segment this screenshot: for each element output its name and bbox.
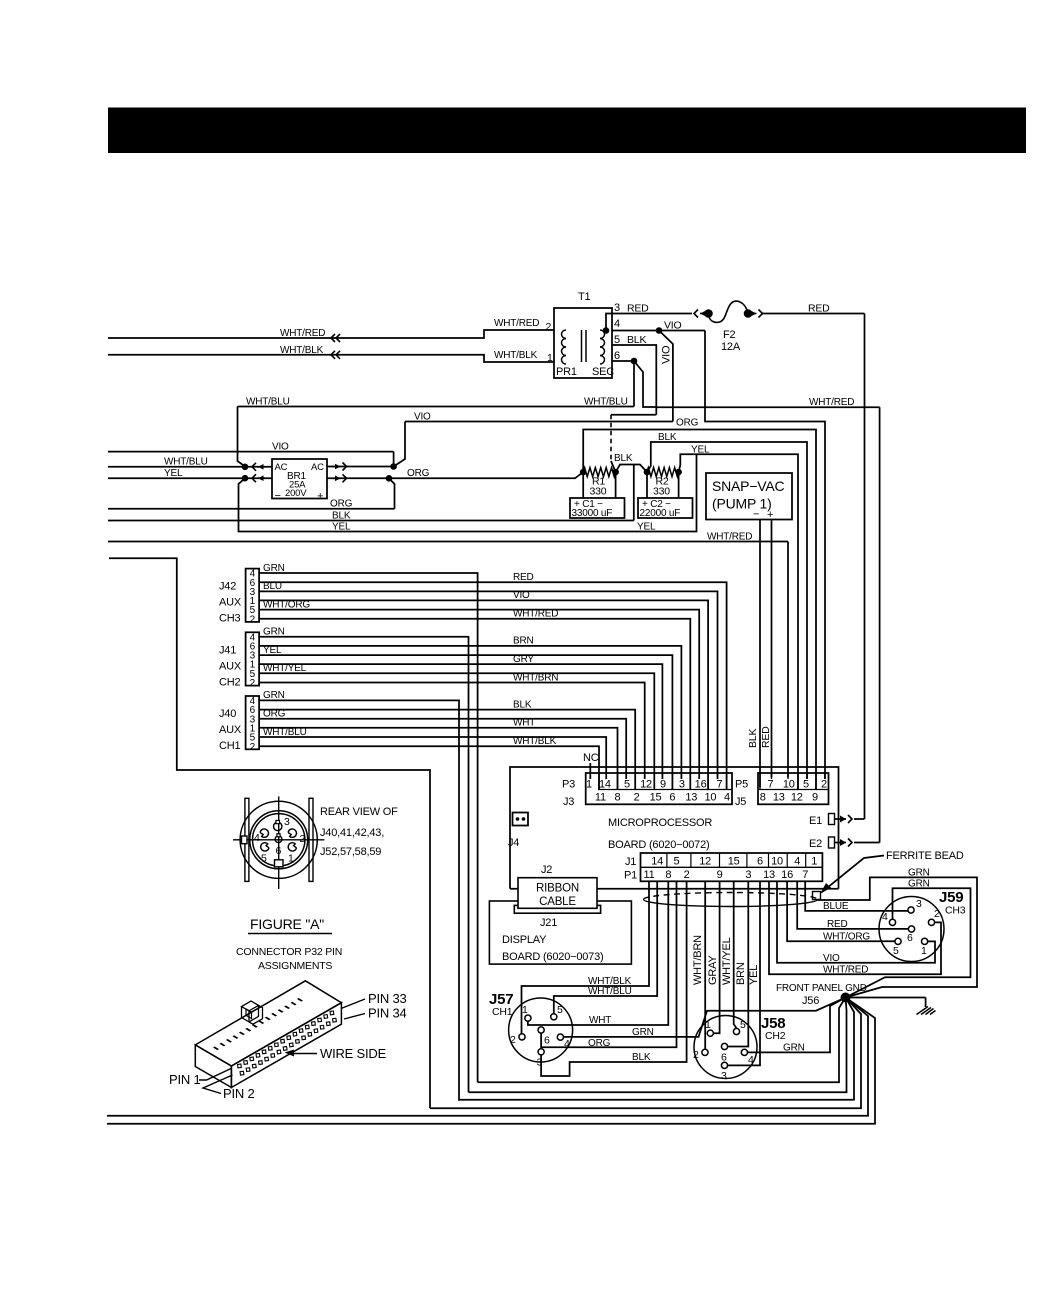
svg-text:−: −	[753, 509, 759, 521]
wire BRN P1-3 to J58 pin6	[728, 881, 749, 1046]
svg-text:2: 2	[250, 678, 256, 689]
wire GRN J59 pin4 to GND	[846, 879, 971, 998]
svg-text:WHT/BLK: WHT/BLK	[513, 736, 557, 747]
wire ORG J1-5 to J57 pin6	[541, 881, 676, 1049]
svg-text:FIGURE "A": FIGURE "A"	[250, 916, 324, 932]
wire WHT J40 to J3 pin 8	[259, 718, 617, 790]
terminal E2	[809, 837, 880, 850]
wire ferrite tail GRN to GND	[818, 867, 978, 997]
svg-text:+: +	[317, 491, 323, 503]
svg-text:7: 7	[716, 779, 722, 791]
svg-text:1: 1	[547, 352, 553, 364]
figure A DIN connector rear view	[233, 796, 324, 889]
svg-text:15: 15	[650, 792, 662, 804]
connector J40 AUX CH1	[219, 696, 259, 753]
svg-text:J4: J4	[508, 837, 519, 849]
wire WHT/BLK to T1 pin 1	[108, 345, 554, 364]
svg-text:BLK: BLK	[332, 510, 351, 521]
svg-text:MICROPROCESSOR: MICROPROCESSOR	[608, 817, 712, 829]
svg-text:RED: RED	[513, 572, 534, 583]
svg-text:2: 2	[693, 1049, 699, 1061]
svg-text:WHT/RED: WHT/RED	[280, 328, 325, 339]
pump SNAP-VAC (PUMP 1)	[706, 473, 792, 521]
svg-text:PIN 2: PIN 2	[223, 1086, 255, 1101]
svg-text:DISPLAY: DISPLAY	[502, 934, 547, 946]
svg-text:J59: J59	[939, 889, 963, 906]
wire WHT/RED (right, to E2)	[657, 397, 880, 843]
node jog R1-R2 BLK	[614, 453, 647, 472]
svg-text:9: 9	[812, 792, 818, 804]
wire SNAP-VAC + to P5 pin 7 (RED)	[760, 520, 772, 778]
wire GND to bracket	[430, 998, 861, 1109]
svg-text:GRN: GRN	[908, 867, 930, 878]
connector J41 AUX CH2	[219, 632, 259, 689]
svg-text:3: 3	[721, 1070, 727, 1082]
svg-text:J21: J21	[540, 917, 557, 929]
svg-text:VIO: VIO	[661, 345, 673, 364]
wire WHT P1-8 to J57 pin1	[528, 881, 668, 1026]
svg-text:WHT/BLU: WHT/BLU	[246, 396, 290, 407]
svg-text:GRY: GRY	[513, 654, 534, 665]
wire VIO J1-10 to J59 pin1	[777, 881, 935, 964]
svg-text:13: 13	[773, 792, 785, 804]
svg-text:13: 13	[763, 869, 775, 881]
fuse F2 12A	[694, 301, 763, 353]
BR1 + output node ORG	[327, 468, 583, 482]
svg-text:BOARD (6020−0073): BOARD (6020−0073)	[502, 951, 603, 963]
wire GRN J40 pin4	[259, 690, 459, 1101]
svg-text:BRN: BRN	[735, 962, 747, 985]
svg-text:FRONT PANEL GND: FRONT PANEL GND	[776, 983, 867, 994]
svg-text:GRN: GRN	[908, 879, 930, 890]
svg-text:12: 12	[791, 792, 803, 804]
svg-text:5: 5	[893, 945, 899, 957]
wire RED J1-4 to J59 pin6	[797, 881, 908, 930]
svg-text:1: 1	[288, 853, 294, 865]
svg-text:6: 6	[669, 792, 675, 804]
capacitor C1 33000 uF	[570, 472, 625, 519]
svg-text:1: 1	[586, 779, 592, 791]
wire GND to J40 GRN	[459, 998, 854, 1100]
svg-text:14: 14	[651, 856, 663, 868]
svg-text:12: 12	[640, 779, 652, 791]
svg-text:GRAY: GRAY	[707, 955, 719, 985]
svg-text:E1: E1	[809, 815, 822, 827]
wire BLUE P1-7 to J59 pin3	[805, 881, 908, 912]
BR1 left wire (YEL)	[108, 468, 272, 482]
P32 labels	[169, 991, 407, 1101]
svg-text:AC: AC	[275, 462, 288, 473]
wire YEL J1-6 to J58 pin3	[728, 881, 760, 1065]
svg-text:WHT/ORG: WHT/ORG	[263, 599, 310, 610]
svg-text:PIN 34: PIN 34	[368, 1006, 407, 1021]
svg-text:REAR VIEW OF: REAR VIEW OF	[320, 806, 398, 818]
svg-text:GRN: GRN	[263, 627, 285, 638]
svg-text:WHT/RED: WHT/RED	[823, 964, 868, 975]
wire VIO J42 to J3 pin 10	[259, 590, 708, 790]
svg-text:AUX: AUX	[219, 660, 242, 672]
svg-text:J41: J41	[219, 644, 236, 656]
BR1 right AC output to VIO node	[327, 463, 397, 471]
svg-text:330: 330	[653, 486, 670, 498]
svg-text:WHT/BLK: WHT/BLK	[494, 350, 538, 361]
connector J42 AUX CH3	[219, 569, 259, 626]
svg-text:BRN: BRN	[513, 636, 534, 647]
svg-text:J40,41,42,43,: J40,41,42,43,	[320, 827, 384, 839]
svg-text:VIO: VIO	[414, 411, 431, 422]
wire SNAP-VAC - to J5 pin 8 (BLK)	[747, 520, 760, 788]
svg-text:WHT/BLU: WHT/BLU	[584, 396, 628, 407]
svg-text:3: 3	[614, 302, 620, 314]
svg-text:(PUMP 1): (PUMP 1)	[712, 496, 772, 512]
wire RED J42 to J3 pin 4	[259, 572, 726, 790]
transformer T1	[554, 291, 614, 378]
svg-text:2: 2	[546, 321, 552, 333]
svg-text:12: 12	[699, 856, 711, 868]
svg-text:CH3: CH3	[219, 613, 240, 625]
svg-text:5: 5	[261, 853, 267, 865]
svg-text:AUX: AUX	[219, 724, 242, 736]
svg-text:5: 5	[674, 856, 680, 868]
wire BLK J40 to J3 pin 2	[259, 699, 635, 790]
wire WHT/BRN J41 to P3 pin 12	[259, 672, 645, 779]
svg-text:SEC: SEC	[592, 366, 614, 378]
wire GND to left edge (outer 2)	[107, 998, 875, 1124]
header P3/J3	[562, 773, 732, 808]
svg-text:YEL: YEL	[332, 522, 351, 533]
svg-text:J42: J42	[219, 581, 236, 593]
svg-text:33000 uF: 33000 uF	[572, 508, 613, 519]
svg-text:WHT: WHT	[513, 718, 535, 729]
svg-text:ORG: ORG	[676, 418, 699, 429]
svg-text:VIO: VIO	[823, 953, 840, 964]
svg-text:WHT/BLU: WHT/BLU	[164, 457, 208, 468]
svg-text:2: 2	[934, 908, 940, 920]
svg-text:J5: J5	[735, 796, 746, 808]
svg-text:6: 6	[907, 932, 913, 944]
svg-text:RED: RED	[808, 303, 830, 315]
svg-text:7: 7	[802, 869, 808, 881]
svg-text:WHT/BLU: WHT/BLU	[263, 727, 307, 738]
wire GND to J42 GRN	[478, 998, 846, 1083]
connector J2 ribbon cable	[514, 864, 600, 913]
svg-text:RED: RED	[827, 919, 848, 930]
svg-text:1: 1	[522, 1004, 528, 1016]
ferrite bead ellipse	[644, 892, 821, 907]
svg-text:22000 uF: 22000 uF	[640, 508, 681, 519]
svg-text:12A: 12A	[721, 341, 741, 353]
svg-text:6: 6	[276, 845, 282, 857]
svg-text:WHT/BLK: WHT/BLK	[280, 345, 324, 356]
svg-text:NC: NC	[583, 752, 599, 764]
svg-text:YEL: YEL	[691, 444, 710, 455]
svg-text:2: 2	[300, 833, 306, 845]
svg-text:BOARD (6020−0072): BOARD (6020−0072)	[608, 839, 709, 851]
svg-text:GRN: GRN	[263, 563, 285, 574]
wire BLU J42 to P3 pin 7	[259, 581, 717, 779]
svg-text:ORG: ORG	[588, 1038, 611, 1049]
resistor R1 330	[580, 468, 619, 498]
svg-text:CABLE: CABLE	[539, 896, 576, 908]
svg-text:4: 4	[564, 1038, 570, 1050]
svg-text:FERRITE BEAD: FERRITE BEAD	[886, 850, 964, 862]
svg-text:J3: J3	[563, 796, 574, 808]
svg-text:VIO: VIO	[272, 441, 289, 452]
svg-text:5: 5	[557, 1004, 563, 1016]
svg-text:WHT/RED: WHT/RED	[707, 532, 752, 543]
svg-text:CONNECTOR P32 PIN: CONNECTOR P32 PIN	[236, 946, 342, 958]
BR1 left AC wire (WHT/BLU)	[108, 457, 272, 471]
svg-text:4: 4	[794, 856, 800, 868]
svg-text:4: 4	[882, 911, 888, 923]
svg-text:J40: J40	[219, 708, 236, 720]
wire ORG to P5 pin 2	[676, 331, 825, 780]
svg-text:2: 2	[684, 869, 690, 881]
wire GRN J58 pin4 to GND	[748, 998, 846, 1054]
svg-text:16: 16	[781, 869, 793, 881]
wire YEL (lower)	[239, 454, 697, 532]
T1 pin 6 wire	[612, 350, 656, 407]
display board J21	[489, 901, 631, 964]
wire WHT/RED P1-13 to J59 pin2	[769, 881, 941, 975]
wire WHT/BLK P1-11 to J57 pin2	[522, 881, 650, 1034]
svg-text:SNAP−VAC: SNAP−VAC	[712, 478, 785, 494]
wire ORG to left edge	[108, 478, 395, 509]
svg-text:4: 4	[748, 1054, 754, 1066]
svg-text:200V: 200V	[285, 488, 307, 499]
svg-text:1: 1	[811, 856, 817, 868]
wire YEL to J5 pin 12	[679, 444, 798, 790]
svg-text:8: 8	[665, 869, 671, 881]
wire GRN J41 pin4	[259, 627, 468, 1093]
svg-text:4: 4	[724, 792, 730, 804]
wire GRN J42 pin4	[259, 563, 478, 1083]
T1 pin 4 wire / node VIO	[612, 318, 705, 422]
svg-text:PIN 33: PIN 33	[368, 991, 407, 1006]
wire BRN J41 to P3 pin 3	[259, 636, 681, 779]
wire R1 left up and across to J5 pin 9	[583, 430, 816, 791]
svg-text:10: 10	[771, 856, 783, 868]
wire WHT/RED (pump) to P5 pin 10	[108, 532, 788, 778]
svg-text:J2: J2	[541, 864, 552, 876]
wire WHT/YEL J1-15 to J58 pin5	[721, 881, 737, 1028]
svg-text:CH2: CH2	[219, 676, 240, 688]
wire GND to J41 GRN	[469, 998, 847, 1093]
wire from pin5/6 down to R1 right (dashed)	[611, 415, 656, 472]
header P5/J5	[735, 773, 829, 808]
svg-text:J52,57,58,59: J52,57,58,59	[320, 846, 381, 858]
svg-text:−: −	[275, 490, 281, 502]
svg-text:2: 2	[821, 779, 827, 791]
svg-text:2: 2	[634, 792, 640, 804]
wire WHT/YEL J41 to J3 pin 15	[259, 663, 654, 790]
svg-text:11: 11	[643, 869, 654, 881]
svg-text:7: 7	[768, 779, 774, 791]
svg-text:9: 9	[717, 869, 723, 881]
svg-text:WHT/YEL: WHT/YEL	[721, 937, 733, 985]
svg-text:P1: P1	[624, 870, 637, 882]
wire YEL J41 to J3 pin 6	[259, 645, 672, 790]
connector J58 CH2	[693, 1015, 786, 1082]
svg-text:ASSIGNMENTS: ASSIGNMENTS	[258, 960, 332, 972]
svg-text:8: 8	[614, 792, 620, 804]
capacitor C2 22000 uF	[638, 472, 693, 519]
svg-text:ORG: ORG	[263, 709, 286, 720]
figure A captions	[320, 806, 398, 858]
wire GRN J57 pin4 to GND	[564, 998, 846, 1039]
svg-text:WHT/BLU: WHT/BLU	[588, 986, 632, 997]
svg-text:ORG: ORG	[330, 499, 353, 510]
svg-text:10: 10	[783, 779, 795, 791]
connector J57 CH1	[489, 991, 573, 1069]
svg-text:+: +	[767, 509, 773, 521]
svg-text:4: 4	[254, 832, 260, 844]
svg-text:WHT/RED: WHT/RED	[809, 397, 854, 408]
wire WHT/BLU (T1 pin6 to BR1)	[238, 396, 634, 466]
svg-text:WHT/RED: WHT/RED	[513, 609, 558, 620]
svg-text:1: 1	[921, 945, 927, 957]
NC pin P3-1	[583, 752, 599, 779]
svg-text:PR1: PR1	[556, 366, 577, 378]
bridge rectifier BR1	[272, 459, 327, 503]
svg-text:CH3: CH3	[945, 905, 966, 917]
svg-text:10: 10	[704, 792, 716, 804]
svg-text:BLK: BLK	[632, 1052, 651, 1063]
svg-text:WHT: WHT	[589, 1015, 611, 1026]
T1 pin 5 wire BLK	[612, 334, 656, 415]
svg-text:YEL: YEL	[164, 468, 183, 479]
node J56 FRONT PANEL GND	[776, 983, 867, 1007]
svg-text:CH1: CH1	[219, 740, 240, 752]
microprocessor board outline	[510, 767, 839, 889]
svg-text:3: 3	[745, 869, 751, 881]
svg-text:8: 8	[760, 792, 766, 804]
svg-text:BLUE: BLUE	[823, 901, 849, 912]
svg-text:WHT/RED: WHT/RED	[494, 318, 539, 329]
FIGURE "A" title	[236, 916, 342, 972]
svg-text:VIO: VIO	[513, 590, 530, 601]
svg-text:5: 5	[803, 779, 809, 791]
svg-text:WHT/BRN: WHT/BRN	[513, 672, 558, 683]
svg-text:BLK: BLK	[658, 432, 677, 443]
header J1/P1	[624, 853, 822, 882]
svg-text:P5: P5	[735, 779, 748, 791]
svg-text:GRN: GRN	[263, 690, 285, 701]
svg-text:BLK: BLK	[747, 729, 759, 748]
svg-text:GRN: GRN	[783, 1043, 805, 1054]
wire WHT/BLK J40 to J3 pin 11	[259, 736, 599, 790]
connector P32 isometric	[195, 981, 341, 1088]
svg-text:VIO: VIO	[664, 319, 682, 331]
svg-text:AUX: AUX	[219, 597, 242, 609]
svg-text:CH2: CH2	[765, 1030, 786, 1042]
svg-text:BLU: BLU	[263, 581, 282, 592]
svg-text:2: 2	[510, 1034, 516, 1046]
svg-text:P3: P3	[562, 779, 575, 791]
svg-text:T1: T1	[578, 291, 591, 303]
wire GRAY P1-9 to J58 pin1	[707, 881, 720, 1033]
svg-text:YEL: YEL	[637, 522, 656, 533]
svg-text:RED: RED	[760, 726, 772, 748]
svg-text:6: 6	[544, 1035, 550, 1047]
svg-text:WHT/YEL: WHT/YEL	[263, 663, 307, 674]
svg-text:3: 3	[284, 816, 290, 828]
svg-text:E2: E2	[809, 838, 822, 850]
svg-text:4: 4	[614, 318, 620, 330]
wire WHT/RED to T1 pin 2	[108, 318, 554, 342]
svg-text:6: 6	[757, 856, 763, 868]
svg-text:5: 5	[740, 1019, 746, 1031]
svg-text:9: 9	[660, 779, 666, 791]
svg-text:CH1: CH1	[492, 1006, 513, 1018]
svg-text:11: 11	[595, 792, 606, 804]
svg-text:5: 5	[624, 779, 630, 791]
svg-text:PIN 1: PIN 1	[169, 1072, 201, 1087]
svg-text:AC: AC	[311, 462, 324, 473]
wire WHT/RED J42 to J3 pin 13	[259, 609, 690, 790]
ground symbol	[851, 998, 936, 1015]
header wire stubs	[599, 773, 727, 790]
wire WHT/ORG P1-16 to J59 pin5	[787, 881, 895, 942]
svg-text:BLK: BLK	[614, 453, 633, 464]
wire WHT/BRN J1-12 to J58 pin2	[692, 881, 705, 1049]
wire chassis bracket (left edge to GND)	[109, 558, 430, 1108]
svg-text:WIRE SIDE: WIRE SIDE	[320, 1046, 387, 1061]
title bar	[108, 108, 1026, 154]
svg-text:3: 3	[679, 779, 685, 791]
resistor R2 330	[644, 468, 682, 498]
wire WHT/BLU J40 to P3 pin 14	[259, 727, 606, 779]
svg-text:15: 15	[728, 856, 740, 868]
wire RED from fuse to E1	[762, 303, 865, 820]
svg-text:RED: RED	[627, 303, 649, 315]
ferrite bead label and arrow	[820, 850, 964, 894]
wire WHT/BLU J1-14 to J57 pin5	[554, 881, 657, 1013]
svg-text:YEL: YEL	[748, 965, 760, 985]
svg-text:WHT/BRN: WHT/BRN	[692, 935, 704, 985]
svg-text:WHT/ORG: WHT/ORG	[823, 931, 870, 942]
svg-text:3: 3	[916, 898, 922, 910]
wire WHT/ORG J42 to P3 pin 16	[259, 599, 699, 779]
svg-text:GRN: GRN	[632, 1027, 654, 1038]
connector J4	[508, 813, 528, 850]
wire VIO (T1 pin4 to BR1 AC and left edge)	[108, 411, 673, 466]
wire ORG J40 to P3 pin 5	[259, 709, 626, 779]
wire BLK to left edge	[108, 465, 634, 522]
svg-text:BLK: BLK	[513, 699, 532, 710]
svg-text:16: 16	[695, 779, 707, 791]
wire GRY J41 to P3 pin 9	[259, 654, 662, 779]
svg-text:J1: J1	[625, 856, 636, 868]
wire BLK P1-2 to J57 pin3	[541, 881, 687, 1076]
svg-text:J56: J56	[802, 995, 819, 1007]
svg-text:330: 330	[590, 486, 607, 498]
svg-text:2: 2	[250, 614, 256, 625]
wire BLK long to P5 pin 5	[647, 432, 807, 779]
svg-text:14: 14	[599, 779, 611, 791]
connector J59 CH3	[879, 889, 966, 962]
svg-text:13: 13	[685, 792, 697, 804]
svg-text:YEL: YEL	[263, 645, 282, 656]
svg-text:2: 2	[250, 742, 256, 753]
wire GND to left edge (outer 1)	[107, 998, 868, 1116]
terminal E1	[809, 814, 865, 828]
svg-text:F2: F2	[723, 329, 736, 341]
T1 pin 3 wire RED	[603, 302, 692, 334]
svg-text:RIBBON: RIBBON	[536, 883, 579, 895]
